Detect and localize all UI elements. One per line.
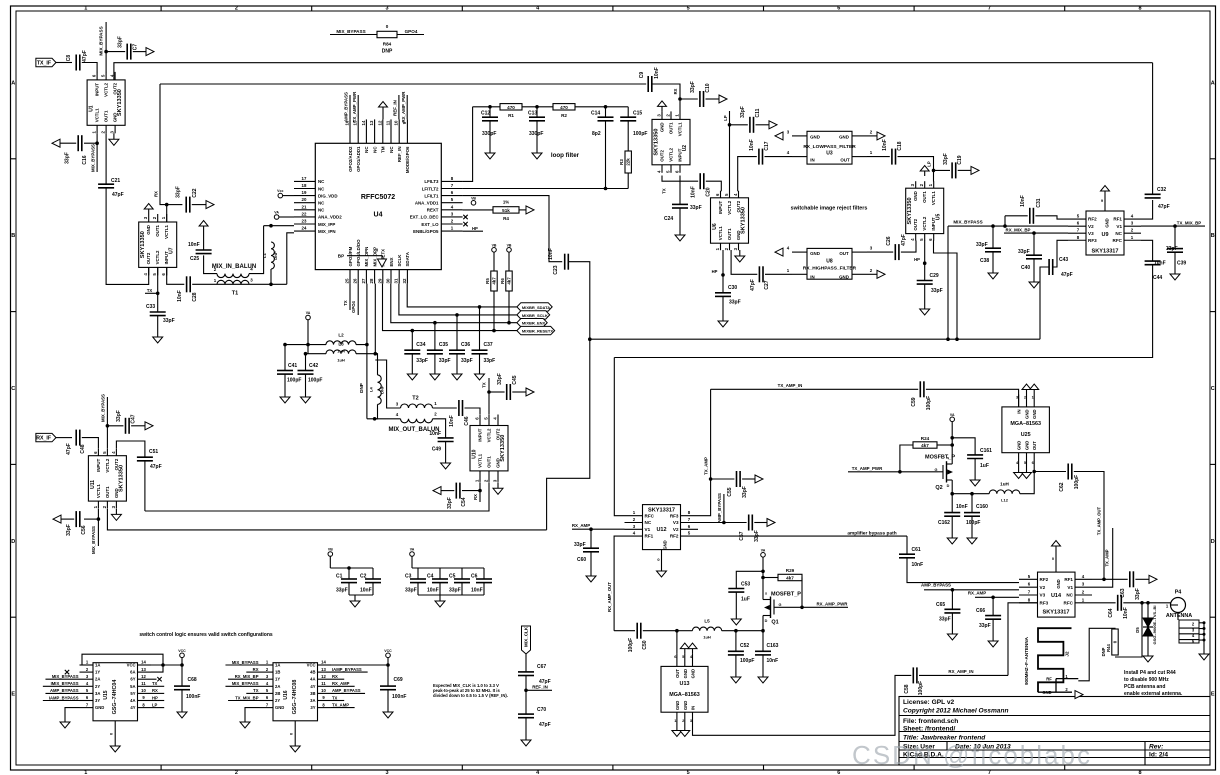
- svg-text:RX_IF: RX_IF: [36, 436, 51, 442]
- wire C47: [107, 425, 123, 427]
- svg-text:INPUT: INPUT: [478, 428, 483, 441]
- svg-text:GPO4/LD/DO: GPO4/LD/DO: [356, 239, 361, 267]
- svg-text:23: 23: [302, 219, 307, 224]
- capacitor C12: [481, 111, 498, 138]
- capacitor C43: [1049, 259, 1053, 275]
- svg-text:U5: U5: [936, 213, 942, 220]
- svg-text:3A: 3A: [95, 691, 100, 696]
- svg-text:VCTL2: VCTL2: [727, 200, 732, 214]
- capacitor C46: [449, 400, 470, 427]
- junction: [104, 50, 108, 54]
- wire U15 gnd pin: [65, 708, 80, 716]
- svg-text:MIX_BYPASS: MIX_BYPASS: [91, 144, 96, 172]
- svg-text:enable external antenna.: enable external antenna.: [1124, 691, 1183, 697]
- gnd under C66: [988, 635, 998, 647]
- svg-text:OUT: OUT: [675, 669, 680, 678]
- gnd under C163: [758, 671, 768, 683]
- svg-text:V3: V3: [673, 520, 679, 525]
- svg-text:2A: 2A: [275, 684, 280, 689]
- capacitor C68: [174, 677, 200, 700]
- gnd under C70: [521, 734, 531, 746]
- wire C19: [934, 169, 951, 171]
- wire C31 left: [1005, 215, 1028, 217]
- wire pin12 short stub: [151, 678, 157, 680]
- svg-text:L4: L4: [369, 387, 374, 392]
- wire VA stem: [411, 556, 413, 568]
- wire U16 gnd0: [294, 721, 296, 740]
- resistor R29: [778, 574, 802, 580]
- wire C62 to TX_AMP_OUT: [1074, 472, 1104, 580]
- gnd U13 pin2: [680, 725, 690, 737]
- svg-text:33pF: 33pF: [447, 497, 453, 509]
- junction: [970, 492, 974, 496]
- svg-text:LP: LP: [927, 161, 932, 167]
- svg-text:GND: GND: [1056, 579, 1061, 588]
- gnd U12: [657, 565, 667, 577]
- svg-text:VCC: VCC: [384, 649, 392, 653]
- wire C55 arrow: [742, 478, 755, 480]
- svg-text:File: frontend.sch: File: frontend.sch: [903, 718, 958, 725]
- svg-text:J2: J2: [1065, 651, 1070, 657]
- svg-text:C11: C11: [755, 108, 761, 117]
- svg-text:RF2: RF2: [1040, 577, 1049, 582]
- svg-text:MIX_BYPASS: MIX_BYPASS: [91, 526, 96, 554]
- svg-text:E: E: [11, 692, 15, 698]
- wire R44 path: [1115, 603, 1142, 657]
- svg-text:GND: GND: [1032, 410, 1037, 419]
- svg-text:33pF: 33pF: [163, 318, 175, 324]
- svg-text:1Y: 1Y: [275, 677, 280, 682]
- capacitor C8: [66, 50, 88, 70]
- svg-text:33pF: 33pF: [574, 542, 586, 548]
- capacitor C67: [518, 664, 551, 685]
- gnd under C49: [441, 457, 451, 469]
- svg-text:VCTL1: VCTL1: [164, 224, 169, 238]
- svg-text:2A: 2A: [95, 677, 100, 682]
- svg-text:C59: C59: [911, 397, 917, 406]
- svg-text:TX_AMP: TX_AMP: [332, 702, 349, 707]
- svg-text:V1: V1: [1116, 224, 1122, 229]
- hier arrow: [526, 388, 534, 396]
- junction: [95, 141, 99, 145]
- wire T2 pin2 to C49: [433, 419, 446, 438]
- wire U10 pin2 down left: [145, 482, 489, 511]
- svg-text:330pF: 330pF: [529, 131, 543, 137]
- svg-text:5: 5: [687, 770, 690, 775]
- svg-text:GND: GND: [675, 701, 680, 710]
- resistor R2: [553, 104, 575, 118]
- svg-text:C65: C65: [936, 602, 945, 608]
- svg-text:C66: C66: [976, 608, 985, 614]
- svg-text:VCTL1: VCTL1: [96, 484, 101, 498]
- svg-text:4k7: 4k7: [492, 277, 497, 285]
- power arrow U14 gnd: [1052, 541, 1061, 552]
- svg-text:GSG–74HC04: GSG–74HC04: [112, 680, 118, 715]
- wire C65 stub: [951, 590, 953, 609]
- wire cap down: [181, 690, 183, 706]
- svg-text:C30: C30: [728, 285, 737, 291]
- svg-text:C20: C20: [706, 187, 712, 196]
- svg-text:TX: TX: [253, 688, 259, 693]
- svg-text:P4: P4: [1175, 590, 1182, 596]
- capacitor C23: [548, 248, 568, 274]
- wire C17 to U3: [765, 156, 793, 158]
- svg-text:GND: GND: [146, 225, 151, 235]
- capacitor C9: [639, 67, 660, 92]
- svg-text:IN: IN: [691, 706, 696, 710]
- gnd under C161: [970, 474, 980, 486]
- wire label stub TX: [151, 685, 164, 687]
- svg-text:MIX_IPN: MIX_IPN: [318, 229, 336, 234]
- capacitor C70: [518, 707, 551, 728]
- gnd U15 bottom: [110, 740, 120, 752]
- svg-text:31: 31: [394, 278, 399, 283]
- svg-text:ENBL/GPO5: ENBL/GPO5: [413, 229, 439, 234]
- svg-text:MOSFBT_P: MOSFBT_P: [925, 455, 955, 461]
- wire C8 to U1 pin6: [82, 63, 97, 73]
- wire T2 pin1 to C46: [433, 407, 457, 409]
- wire C39 stub: [1174, 226, 1176, 248]
- power arrow U25 pin1: [1030, 384, 1039, 395]
- wire MIX_IPN riser: [287, 233, 294, 284]
- wire R24 right: [937, 444, 952, 446]
- junction: [304, 352, 308, 356]
- wire label stub TX: [246, 692, 259, 694]
- wire R2 right: [575, 106, 628, 108]
- svg-text:MIX_BYPASS: MIX_BYPASS: [232, 660, 259, 665]
- gnd under C12: [485, 147, 495, 159]
- svg-text:amplifier bypass path: amplifier bypass path: [847, 531, 896, 537]
- switch U5 SKY13350: [906, 181, 944, 241]
- svg-text:18: 18: [302, 183, 307, 188]
- svg-text:C46: C46: [464, 416, 470, 425]
- wire C10 arrow: [706, 98, 720, 100]
- svg-text:Sheet: /frontend/: Sheet: /frontend/: [903, 726, 956, 733]
- svg-text:C8: C8: [66, 55, 72, 62]
- junction: [1032, 470, 1036, 474]
- hier arrow J2 gnd: [1075, 691, 1083, 699]
- svg-text:C162: C162: [938, 520, 950, 526]
- svg-text:VB: VB: [328, 548, 333, 552]
- wire pin26 stub: [357, 284, 359, 315]
- svg-text:C26: C26: [886, 236, 892, 245]
- svg-text:10nF: 10nF: [956, 504, 968, 510]
- wire C60 down: [590, 552, 592, 570]
- wire pin25 stub: [349, 284, 351, 310]
- va circle2: [410, 548, 415, 557]
- gnd U6 pin3: [735, 250, 745, 262]
- gnd under C24: [675, 229, 685, 241]
- svg-text:G: G: [779, 603, 782, 607]
- svg-text:1uF: 1uF: [741, 597, 750, 603]
- wire U9 pin3 right: [1141, 225, 1175, 227]
- wire U15 gnd0: [114, 721, 116, 740]
- gnd under C53: [731, 613, 741, 625]
- svg-text:AMP_BYPASS: AMP_BYPASS: [332, 688, 361, 693]
- svg-text:C44: C44: [1153, 275, 1162, 281]
- svg-text:GND: GND: [683, 669, 688, 678]
- connector J2 900MHZ-F-ANTENNA: [1024, 628, 1078, 695]
- svg-text:AMP_BYPASS: AMP_BYPASS: [50, 688, 79, 693]
- capacitor C22: [176, 186, 199, 212]
- wire TX label stub: [145, 292, 158, 294]
- capacitor C10: [690, 81, 711, 107]
- gnd under cap: [177, 706, 187, 718]
- capacitor C53: [728, 582, 750, 603]
- svg-text:VCTL1: VCTL1: [478, 453, 483, 467]
- power arrow U7 pin3: [144, 204, 153, 215]
- svg-text:GPO3/FM: GPO3/FM: [348, 246, 353, 266]
- svg-text:NC: NC: [1115, 231, 1122, 236]
- vb circle: [328, 548, 333, 557]
- switch U11 SKY13350: [88, 449, 126, 509]
- capacitor C58: [904, 667, 924, 695]
- svg-text:RF2: RF2: [670, 534, 679, 539]
- wire C20 to U6 pin6: [706, 181, 722, 191]
- capacitor C31: [1020, 195, 1042, 224]
- capacitor C32: [1145, 187, 1170, 210]
- svg-text:GND: GND: [913, 191, 918, 201]
- svg-text:RX: RX: [473, 494, 478, 500]
- svg-text:13: 13: [141, 667, 146, 672]
- svg-text:ANA_VDD1: ANA_VDD1: [415, 201, 439, 206]
- svg-text:LFITLT2: LFITLT2: [422, 186, 439, 191]
- wire C42 riser: [306, 353, 309, 355]
- svg-text:V3: V3: [1088, 231, 1094, 236]
- wire R29 right: [801, 578, 803, 608]
- gnd under C13: [532, 147, 542, 159]
- IC U8 RX_HIGHPASS_FILTER: [787, 246, 873, 280]
- svg-text:5A: 5A: [130, 684, 135, 689]
- gnd under C39: [1170, 268, 1180, 280]
- wire L1 bottom: [270, 269, 272, 284]
- capacitor C66: [976, 608, 1001, 629]
- svg-text:C55: C55: [727, 487, 733, 496]
- wire C35 down: [434, 354, 436, 368]
- svg-text:IMIX_BYPASS: IMIX_BYPASS: [51, 681, 79, 686]
- svg-text:T1: T1: [232, 291, 238, 297]
- wire Q1 source: [762, 595, 764, 600]
- transformer T2 bottom winding: [388, 412, 439, 434]
- svg-text:NC: NC: [372, 146, 377, 153]
- svg-text:12: 12: [377, 120, 382, 125]
- svg-text:REXT: REXT: [427, 208, 439, 213]
- wire left vert to C51: [116, 441, 144, 457]
- svg-text:RX: RX: [253, 667, 259, 672]
- svg-text:3: 3: [385, 770, 388, 775]
- junction: [991, 224, 995, 228]
- svg-text:C62: C62: [1059, 482, 1065, 491]
- wire R6 top: [508, 252, 510, 271]
- wire U13 pin3 RX_AMP_IN: [693, 675, 912, 735]
- wire C23 right: [568, 262, 590, 340]
- wire U15 vcc stem: [181, 658, 183, 665]
- svg-text:RX: RX: [673, 88, 678, 94]
- capacitor C5: [449, 574, 470, 594]
- svg-text:100nF: 100nF: [186, 694, 200, 700]
- hier arrow U8 pin4: [775, 248, 783, 256]
- svg-text:R44: R44: [1106, 643, 1111, 651]
- capacitor C49: [429, 431, 453, 453]
- svg-text:C17: C17: [764, 141, 770, 150]
- svg-text:OUT2: OUT2: [913, 218, 918, 230]
- wire C55: [711, 478, 735, 480]
- svg-text:C161: C161: [980, 448, 992, 454]
- no-connect pin3: [463, 215, 467, 219]
- junction: [951, 588, 955, 592]
- wire C14 down to pin7 line: [605, 121, 607, 189]
- svg-text:IN: IN: [810, 275, 814, 280]
- junction: [492, 329, 496, 333]
- svg-text:NC: NC: [1066, 593, 1073, 598]
- svg-text:33pF: 33pF: [1135, 588, 1141, 600]
- wire C64 to P4: [1123, 602, 1170, 604]
- svg-text:33pF: 33pF: [740, 106, 746, 118]
- svg-text:10nF: 10nF: [654, 67, 660, 79]
- capacitor C20: [691, 173, 712, 198]
- wire C18 to U5 pin1: [898, 157, 934, 182]
- junction: [604, 187, 608, 191]
- capacitor C36: [449, 342, 473, 364]
- svg-text:Install P4 and cut R44: Install P4 and cut R44: [1124, 670, 1176, 676]
- wire L12 right up: [1020, 472, 1034, 494]
- switch U6 SKY13350: [711, 191, 749, 251]
- title block: [899, 697, 1210, 766]
- svg-text:MODE/GPO6: MODE/GPO6: [405, 146, 410, 173]
- svg-text:RX: RX: [154, 191, 159, 197]
- svg-text:2Y: 2Y: [95, 684, 100, 689]
- gnd under C160: [967, 532, 977, 544]
- wire C66 down: [992, 619, 994, 635]
- svg-text:OUT1: OUT1: [669, 122, 674, 134]
- svg-text:RFC: RFC: [645, 513, 655, 518]
- wire MIX_BYPASS to U9 pin6: [948, 225, 1068, 227]
- wire to C63: [1104, 578, 1128, 580]
- IC U9 SKY13317: [1068, 196, 1141, 255]
- inductor L2: [326, 333, 356, 354]
- svg-text:17: 17: [302, 176, 307, 181]
- svg-text:TX_IF: TX_IF: [37, 61, 51, 67]
- svg-text:10nF: 10nF: [1020, 195, 1026, 207]
- svg-text:C36: C36: [461, 342, 470, 348]
- wire U8 OUT to C26: [867, 251, 893, 253]
- capacitor C69: [380, 677, 406, 700]
- svg-text:TM: TM: [381, 146, 386, 153]
- inductor L3: [326, 342, 356, 363]
- svg-text:3: 3: [385, 6, 388, 12]
- svg-text:RX_AMP_PWR: RX_AMP_PWR: [401, 91, 406, 123]
- wire C70 down: [525, 718, 527, 734]
- svg-text:Rev:: Rev:: [1149, 744, 1163, 751]
- svg-text:2: 2: [235, 770, 238, 775]
- va above Q2: [950, 413, 955, 422]
- wire R24 left: [900, 445, 913, 472]
- wire C45: [489, 391, 505, 393]
- svg-text:V2: V2: [1040, 585, 1046, 590]
- capacitor C35: [427, 342, 451, 364]
- wire REF_IN stub: [526, 689, 552, 691]
- junction: [165, 203, 169, 207]
- capacitor C21: [98, 178, 124, 198]
- capacitor C41: [277, 363, 301, 384]
- svg-text:R4: R4: [503, 216, 509, 221]
- wire label stub RX: [331, 678, 344, 680]
- svg-text:C51: C51: [149, 449, 158, 455]
- svg-text:AMP_BYPASS: AMP_BYPASS: [921, 583, 951, 588]
- wire C37 down: [479, 354, 481, 368]
- svg-text:6A: 6A: [130, 670, 135, 675]
- svg-text:2B: 2B: [275, 691, 280, 696]
- wire label stub MIX_BYPASS: [225, 685, 259, 687]
- svg-text:21: 21: [302, 204, 307, 209]
- svg-text:U2: U2: [682, 145, 688, 152]
- svg-text:switch control logic ensures v: switch control logic ensures valid switc…: [139, 632, 273, 638]
- svg-text:C47: C47: [131, 414, 137, 423]
- svg-text:10nF: 10nF: [449, 415, 455, 427]
- svg-text:470: 470: [507, 105, 515, 110]
- gnd U13 pin1: [672, 725, 682, 737]
- svg-text:25: 25: [345, 278, 350, 283]
- wire C45 arrow: [512, 391, 526, 393]
- svg-text:C23: C23: [553, 265, 559, 274]
- capacitor C25: [188, 242, 212, 262]
- svg-text:NC: NC: [318, 208, 325, 213]
- svg-text:VCTL2: VCTL2: [104, 82, 109, 96]
- svg-text:RF: RF: [1046, 677, 1052, 682]
- svg-text:100pF: 100pF: [287, 378, 301, 384]
- svg-text:33pF: 33pF: [943, 153, 949, 165]
- wire U3 OUT to C18: [867, 156, 890, 158]
- junction: [728, 123, 732, 127]
- wire C50 right: [643, 630, 677, 632]
- svg-text:NC: NC: [318, 179, 325, 184]
- IC U4 RFFC5072: [294, 95, 463, 284]
- wire C160 stub: [971, 494, 973, 513]
- wire pin1 ENBL: [463, 230, 483, 232]
- wire T1 top left to C25: [204, 255, 217, 273]
- svg-text:C25: C25: [190, 256, 199, 262]
- svg-text:SKY13350: SKY13350: [741, 207, 747, 234]
- junction: [535, 105, 539, 109]
- svg-text:VB: VB: [492, 243, 497, 247]
- svg-text:33pF: 33pF: [1018, 249, 1030, 255]
- wire C41 down: [284, 374, 286, 391]
- svg-text:33pF: 33pF: [690, 205, 702, 211]
- junction: [1146, 601, 1150, 605]
- svg-text:MOSFBT_P: MOSFBT_P: [771, 592, 801, 598]
- svg-text:24: 24: [302, 226, 307, 231]
- svg-text:OUT1: OUT1: [155, 224, 160, 236]
- wire U12 pin8 riser: [698, 389, 711, 515]
- wire U12 pin4 down: [614, 536, 624, 631]
- svg-text:6: 6: [837, 6, 840, 12]
- svg-text:RX_HIGHPASS_FILTER: RX_HIGHPASS_FILTER: [803, 266, 857, 272]
- wire C60 stub: [590, 529, 592, 548]
- wire R5 bottom: [493, 291, 495, 331]
- svg-text:C67: C67: [537, 664, 546, 670]
- svg-text:33pF: 33pF: [461, 358, 473, 364]
- wire pin19: [283, 195, 294, 197]
- wire U14 pin4: [1092, 578, 1104, 580]
- wire C19 arrow: [958, 169, 971, 171]
- wire pin27 MIX_OPN down: [366, 284, 368, 345]
- svg-text:U1: U1: [89, 105, 95, 112]
- wire U2 pin4 TX down: [662, 176, 698, 182]
- svg-text:0: 0: [386, 24, 389, 29]
- wire MIX_BYPASS stub: [330, 34, 377, 36]
- junction: [898, 470, 902, 474]
- junction: [347, 566, 351, 570]
